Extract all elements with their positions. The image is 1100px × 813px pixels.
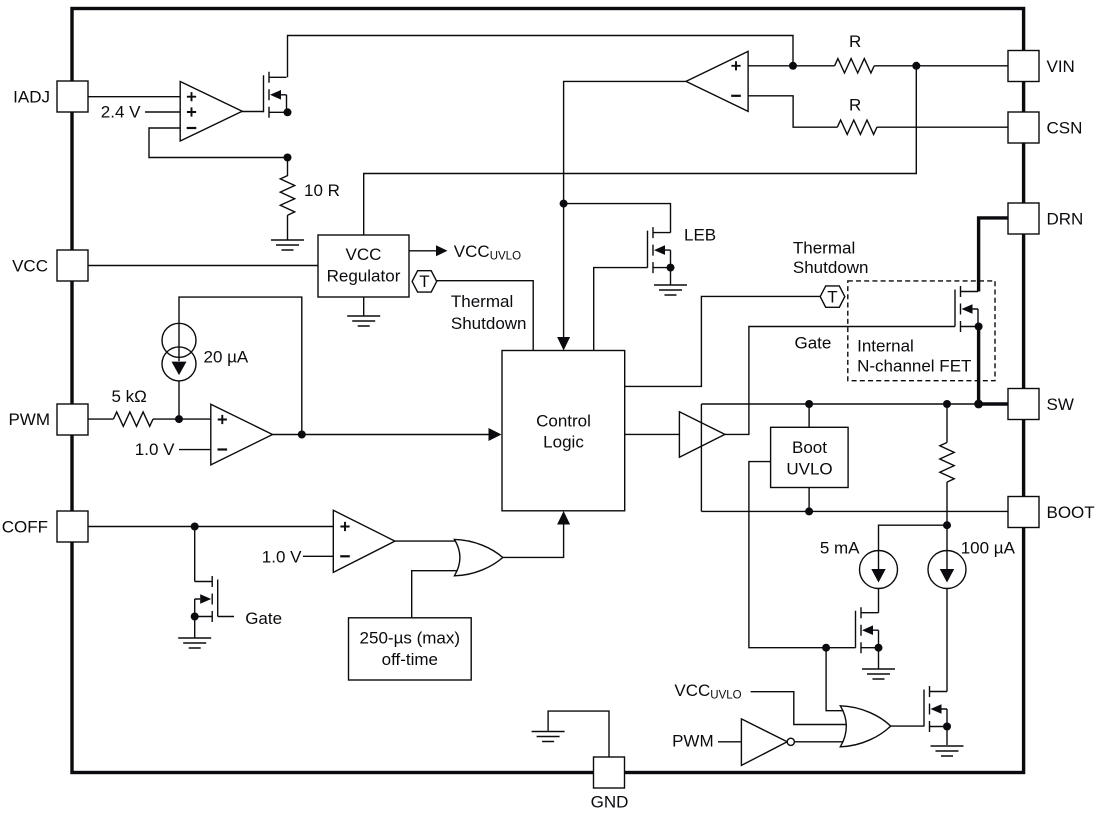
svg-text:5 kΩ: 5 kΩ (112, 387, 147, 406)
svg-text:GND: GND (591, 793, 629, 812)
svg-text:DRN: DRN (1047, 209, 1084, 228)
svg-text:Regulator: Regulator (327, 266, 401, 285)
svg-text:VCCUVLO: VCCUVLO (674, 681, 741, 702)
svg-text:VCC: VCC (346, 245, 382, 264)
svg-text:PWM: PWM (8, 410, 50, 429)
svg-text:VCC: VCC (12, 256, 48, 275)
svg-text:CSN: CSN (1047, 118, 1083, 137)
svg-text:Thermal: Thermal (793, 238, 855, 257)
svg-text:Boot: Boot (792, 438, 827, 457)
svg-text:1.0 V: 1.0 V (135, 440, 175, 459)
svg-text:T: T (827, 287, 837, 306)
svg-text:PWM: PWM (672, 732, 714, 751)
svg-text:R: R (849, 32, 861, 51)
svg-text:BOOT: BOOT (1047, 503, 1095, 522)
svg-text:Control: Control (536, 412, 591, 431)
svg-text:LEB: LEB (684, 226, 716, 245)
svg-text:10 R: 10 R (304, 181, 340, 200)
svg-text:Shutdown: Shutdown (451, 314, 527, 333)
svg-text:UVLO: UVLO (786, 460, 832, 479)
svg-text:IADJ: IADJ (13, 88, 50, 107)
svg-text:T: T (419, 272, 429, 291)
svg-text:Gate: Gate (245, 609, 282, 628)
svg-text:N-channel FET: N-channel FET (857, 357, 971, 376)
svg-text:Shutdown: Shutdown (793, 258, 869, 277)
svg-text:COFF: COFF (2, 517, 48, 536)
svg-text:100 µA: 100 µA (961, 539, 1016, 558)
svg-text:20 µA: 20 µA (204, 347, 249, 366)
svg-text:R: R (849, 96, 861, 115)
svg-text:250-µs (max): 250-µs (max) (360, 629, 460, 648)
svg-text:2.4 V: 2.4 V (101, 102, 141, 121)
svg-text:5 mA: 5 mA (820, 539, 860, 558)
svg-text:Internal: Internal (857, 337, 914, 356)
svg-text:1.0 V: 1.0 V (262, 548, 302, 567)
svg-text:VIN: VIN (1047, 57, 1075, 76)
svg-text:Gate: Gate (795, 334, 832, 353)
svg-text:VCCUVLO: VCCUVLO (454, 242, 521, 263)
svg-text:Logic: Logic (543, 433, 584, 452)
svg-text:off-time: off-time (382, 650, 438, 669)
svg-text:SW: SW (1047, 395, 1074, 414)
svg-text:Thermal: Thermal (451, 292, 513, 311)
